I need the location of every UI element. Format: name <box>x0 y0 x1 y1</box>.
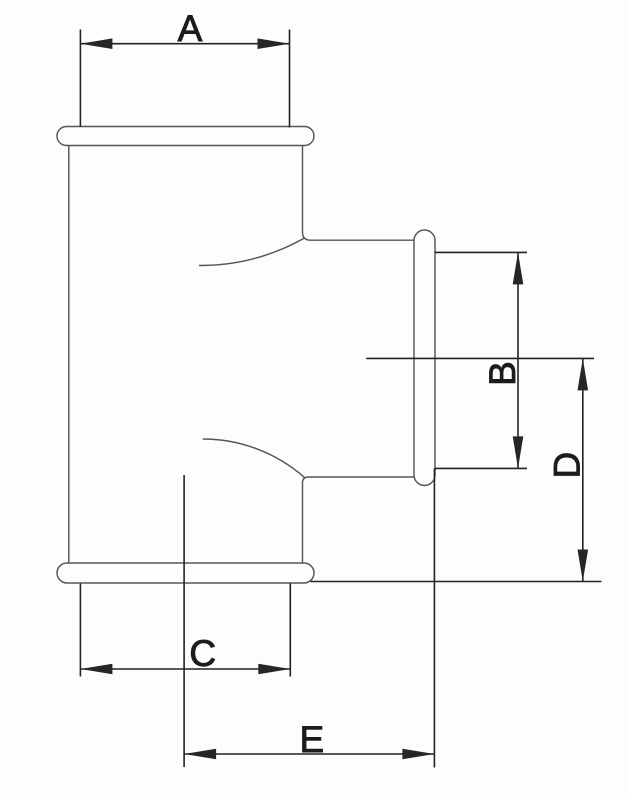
svg-text:D: D <box>547 452 588 479</box>
svg-text:E: E <box>300 719 325 760</box>
svg-text:C: C <box>189 633 216 674</box>
svg-text:B: B <box>482 361 523 386</box>
svg-text:A: A <box>178 8 203 49</box>
